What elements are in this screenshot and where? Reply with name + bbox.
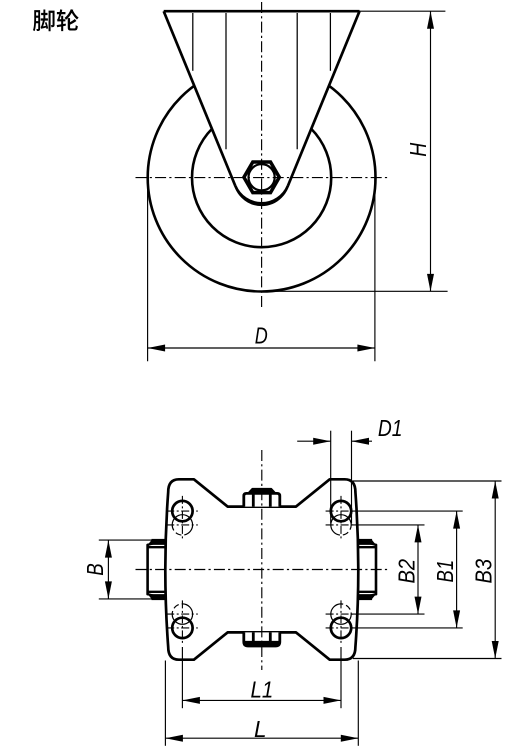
svg-text:D1: D1 — [378, 415, 403, 441]
svg-text:L: L — [254, 716, 267, 742]
svg-text:H: H — [405, 142, 431, 156]
svg-text:B1: B1 — [432, 560, 458, 583]
svg-text:B3: B3 — [471, 559, 497, 584]
svg-text:L1: L1 — [251, 677, 274, 703]
svg-text:B2: B2 — [393, 559, 419, 584]
svg-text:D: D — [255, 323, 268, 349]
svg-text:B: B — [82, 563, 108, 576]
